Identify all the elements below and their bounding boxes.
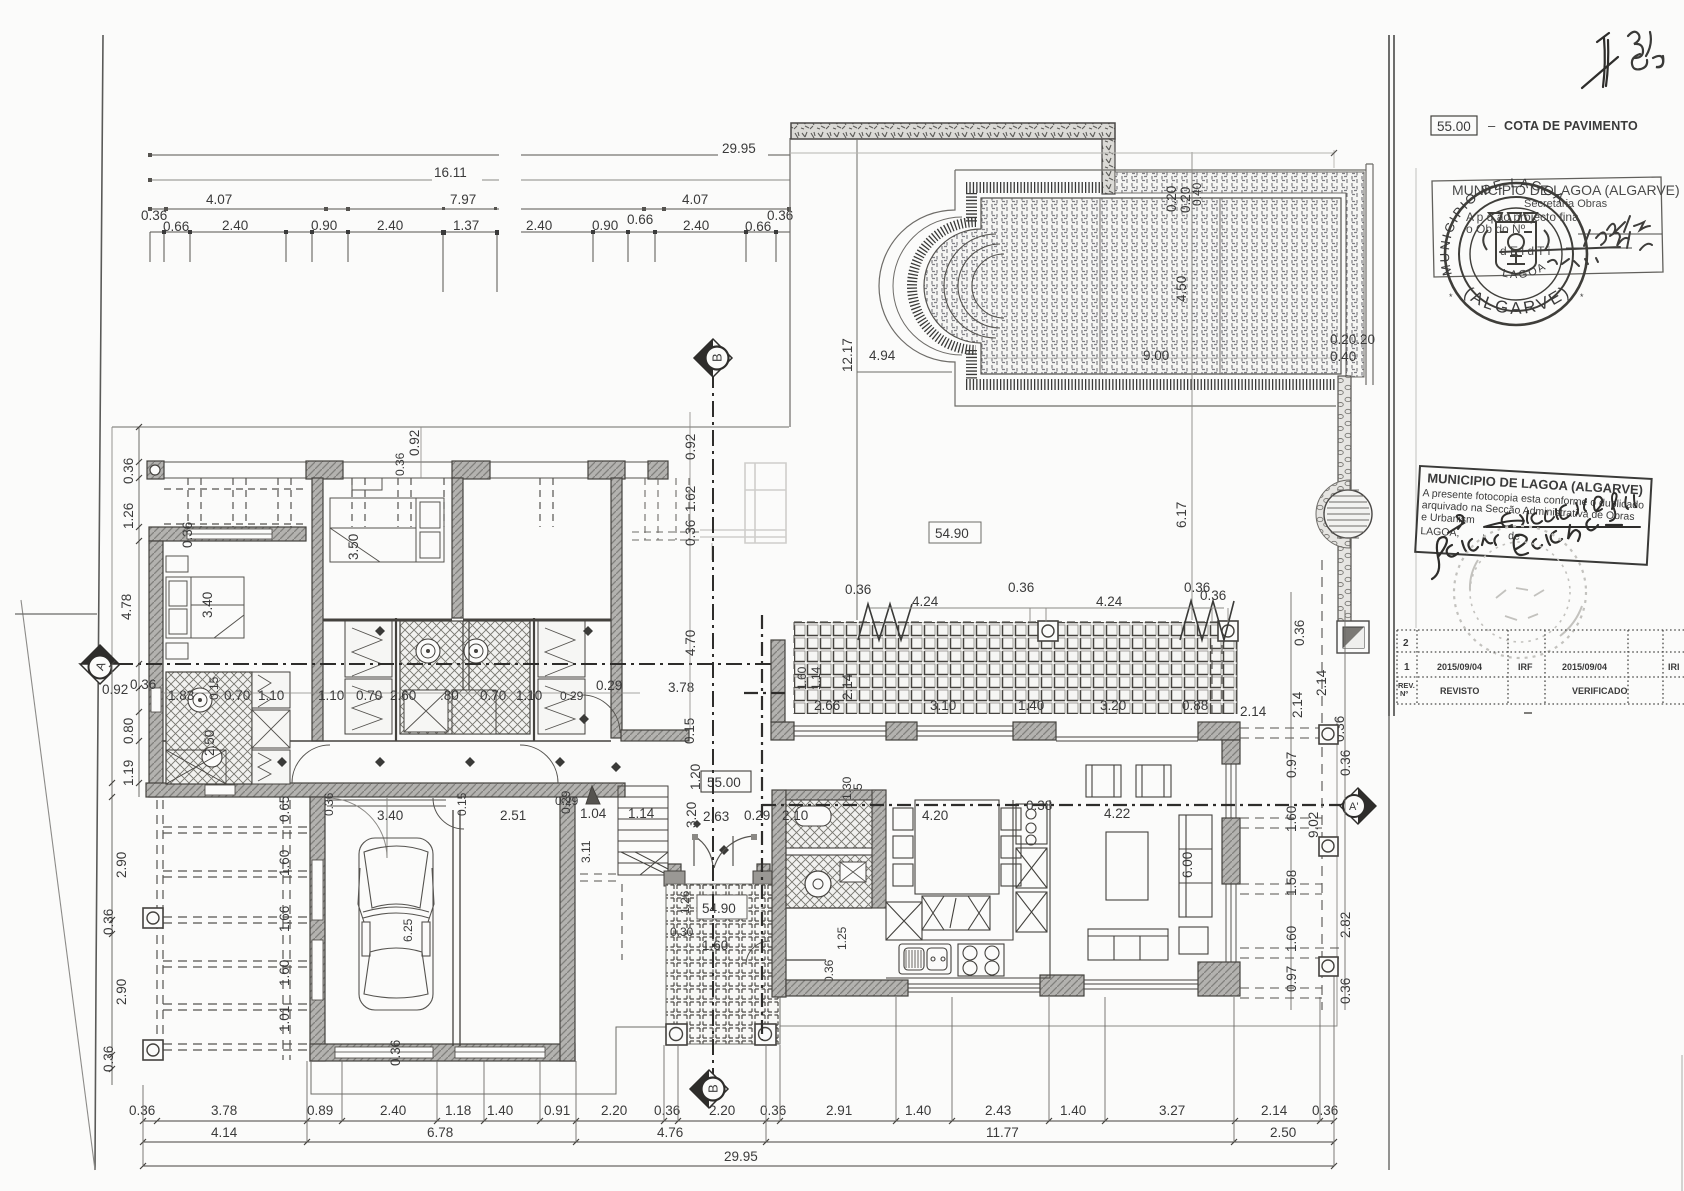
svg-text:IRF: IRF [1518, 662, 1533, 672]
svg-text:0.91: 0.91 [544, 1103, 570, 1118]
pool edge tick neck + arc [966, 193, 977, 222]
svg-text:0.29: 0.29 [744, 808, 770, 823]
svg-text:0.80: 0.80 [121, 718, 136, 744]
kitchen counters [886, 800, 1050, 978]
svg-text:0.15: 0.15 [455, 792, 469, 816]
pool edge tick band top [966, 182, 1103, 193]
white gap in top dim lines [499, 144, 521, 236]
south boundary line right wing [666, 718, 1337, 1026]
round planter [1316, 480, 1350, 548]
lane lines [1100, 198, 1220, 374]
wing south wall [146, 783, 625, 797]
svg-text:0.20: 0.20 [1164, 186, 1179, 212]
svg-text:2.91: 2.91 [826, 1103, 852, 1118]
A axis left [88, 663, 775, 665]
A' axis [761, 615, 763, 1040]
chain ticks and drop lines [150, 232, 790, 292]
right corner marks [1319, 725, 1338, 744]
svg-text:0.20.20: 0.20.20 [1330, 332, 1375, 347]
svg-text:9.02: 9.02 [1306, 812, 1321, 838]
bottom chain row 2 [143, 1141, 1334, 1143]
svg-text:1.83: 1.83 [168, 688, 194, 703]
svg-text:3.40: 3.40 [377, 808, 403, 823]
svg-text:6.25: 6.25 [401, 918, 415, 942]
svg-text:6.00: 6.00 [1180, 852, 1195, 878]
handwritten date + signature [1448, 493, 1640, 533]
svg-text:2.20: 2.20 [601, 1103, 627, 1118]
floor diamonds [277, 626, 729, 855]
svg-text:0.36: 0.36 [760, 1103, 786, 1118]
svg-text:6.17: 6.17 [1174, 502, 1189, 528]
svg-text:0.92: 0.92 [407, 430, 422, 456]
bedroom1 north wall [149, 527, 306, 541]
svg-text:0.36: 0.36 [129, 1103, 155, 1118]
svg-text:29.95: 29.95 [724, 1149, 758, 1164]
svg-text:0.36: 0.36 [1292, 620, 1307, 646]
property line vertical x=790 [789, 138, 791, 427]
bottom chain row 3 [143, 1165, 1334, 1167]
svg-text:0.38: 0.38 [1026, 798, 1052, 813]
svg-text:0.36: 0.36 [130, 677, 156, 692]
garage internal divider [453, 810, 460, 1046]
55.00 cota [1431, 116, 1477, 135]
svg-text:.80: .80 [440, 688, 459, 703]
svg-text:3.40: 3.40 [200, 592, 215, 618]
svg-text:5: 5 [851, 783, 865, 790]
svg-text:0.90: 0.90 [592, 218, 618, 233]
chain dim line 0.36..0.66 [150, 231, 790, 233]
svg-text:1.20: 1.20 [688, 764, 703, 790]
svg-text:0.36: 0.36 [767, 208, 793, 223]
dim line 4.07 / 7.97 / 4.07 [150, 208, 790, 210]
svg-text:2.82: 2.82 [1338, 912, 1353, 938]
square planter [1337, 621, 1369, 653]
path outline below garage [311, 1027, 666, 1094]
svg-text:0.40: 0.40 [1190, 182, 1204, 206]
garage bottom wall [310, 1044, 575, 1061]
divider bed2/bed3 [452, 478, 463, 618]
wall vertical return [1102, 139, 1115, 194]
bottom chain row 1 [143, 1120, 1334, 1122]
svg-text:0.70: 0.70 [356, 688, 382, 703]
svg-text:Nº: Nº [1400, 689, 1408, 698]
svg-text:2.14: 2.14 [840, 673, 855, 700]
dim 12.17 [856, 138, 858, 620]
B axis [712, 372, 714, 1075]
divider bed1/bed2 [312, 478, 323, 741]
svg-text:9.00: 9.00 [1143, 348, 1169, 363]
svg-text:3.50: 3.50 [346, 534, 361, 560]
dining table [893, 800, 1021, 930]
svg-text:11.77: 11.77 [986, 1125, 1019, 1140]
svg-text:0.15: 0.15 [682, 718, 697, 744]
walkway band right of wall + deck strip right [1115, 172, 1364, 377]
svg-text:1.62: 1.62 [683, 486, 698, 512]
svg-text:1.10: 1.10 [318, 688, 344, 703]
svg-text:0.66: 0.66 [627, 212, 653, 227]
pen strokes [1582, 33, 1618, 88]
svg-text:B: B [710, 353, 725, 362]
pergola dashed structure [157, 800, 310, 1060]
svg-text:4.07: 4.07 [682, 192, 708, 207]
B marker top [694, 339, 732, 377]
svg-text:0.36: 0.36 [683, 520, 698, 546]
svg-text:3.20: 3.20 [684, 802, 699, 828]
svg-text:7.97: 7.97 [450, 192, 476, 207]
svg-text:2.50: 2.50 [1270, 1125, 1296, 1140]
svg-text:2.40: 2.40 [683, 218, 709, 233]
svg-text:1.14: 1.14 [809, 666, 823, 690]
svg-text:0.29: 0.29 [559, 790, 573, 814]
handwritten entries [1500, 216, 1652, 266]
svg-text:2.14: 2.14 [1290, 691, 1305, 718]
svg-text:0.70: 0.70 [224, 688, 250, 703]
svg-text:IRI: IRI [1668, 662, 1680, 672]
svg-text:0.36: 0.36 [845, 582, 871, 597]
svg-text:2.20: 2.20 [709, 1103, 735, 1118]
svg-text:4.22: 4.22 [1104, 806, 1130, 821]
svg-text:4.50: 4.50 [1174, 276, 1189, 302]
svg-text:2.40: 2.40 [377, 218, 403, 233]
svg-text:0.36: 0.36 [101, 1046, 116, 1072]
svg-text:*: * [1580, 292, 1584, 302]
paper crease diagonal bottom-left [21, 600, 95, 1170]
svg-text:2.50: 2.50 [202, 730, 217, 756]
svg-text:1.60: 1.60 [1284, 806, 1299, 832]
svg-text:0.70: 0.70 [480, 688, 506, 703]
svg-text:0.97: 0.97 [1284, 752, 1299, 778]
svg-text:COTA DE PAVIMENTO: COTA DE PAVIMENTO [1504, 119, 1638, 133]
svg-text:1.60: 1.60 [277, 960, 292, 986]
east wall [1222, 740, 1240, 764]
svg-text:2: 2 [1403, 638, 1409, 649]
stamp 2 tilted box [1415, 466, 1651, 565]
svg-text:1.10: 1.10 [516, 688, 542, 703]
svg-text:0.36: 0.36 [1338, 978, 1353, 1004]
top boundary wall (rubble) [791, 123, 1115, 139]
dim line 16.11 [150, 179, 790, 181]
svg-text:2.10: 2.10 [782, 808, 808, 823]
stamp 1 box [1432, 177, 1680, 277]
left wing dim row [163, 692, 640, 694]
svg-text:1.40: 1.40 [1060, 1103, 1086, 1118]
svg-text:0.90: 0.90 [311, 218, 337, 233]
svg-text:0.88: 0.88 [1182, 698, 1208, 713]
svg-text:4.70: 4.70 [683, 630, 698, 656]
garage door opening [327, 800, 446, 806]
svg-text:2.66: 2.66 [814, 698, 840, 713]
svg-text:2.60: 2.60 [390, 688, 416, 703]
dim line 29.95 [150, 154, 790, 156]
living furniture [1086, 765, 1212, 960]
svg-text:0.36: 0.36 [1200, 588, 1226, 603]
svg-text:1.25: 1.25 [835, 926, 849, 950]
svg-text:0.29: 0.29 [560, 689, 584, 703]
svg-text:4.76: 4.76 [657, 1125, 683, 1140]
svg-text:1.60: 1.60 [277, 850, 292, 876]
pool edge tick band bottom [966, 379, 1336, 390]
door arc garage2 [433, 798, 464, 829]
hall: 55.00 label [701, 771, 751, 792]
svg-text:0.36: 0.36 [1338, 750, 1353, 776]
zigzag break marks [858, 604, 912, 640]
svg-text:1.66: 1.66 [277, 906, 292, 932]
revision table [1397, 630, 1684, 704]
svg-text:0.36: 0.36 [654, 1103, 680, 1118]
west wall upper [771, 640, 785, 722]
wardrobe columns flanking center bath [345, 621, 585, 734]
porch band edge lines [147, 462, 668, 478]
roman steps arcs [944, 234, 996, 338]
garage right wall [560, 797, 575, 1061]
bathroom 1 tiles [166, 672, 252, 784]
entry patio side walls [668, 864, 681, 948]
svg-text:2.14: 2.14 [1261, 1103, 1288, 1118]
wall from bed3 to hall [621, 730, 689, 741]
svg-text:1.10: 1.10 [258, 688, 284, 703]
faint template border [1415, 168, 1417, 628]
right page edge [1681, 1055, 1683, 1191]
svg-text:*: * [1449, 292, 1453, 302]
svg-text:6.78: 6.78 [427, 1125, 453, 1140]
faint round stamp [1454, 526, 1586, 658]
page left border line [95, 35, 103, 1170]
svg-text:54.90: 54.90 [702, 901, 736, 916]
svg-text:0.36: 0.36 [388, 1040, 403, 1066]
bath zone top wall [323, 619, 611, 622]
svg-text:2.14: 2.14 [1314, 669, 1329, 696]
extension verticals [143, 962, 1334, 1166]
svg-text:A': A' [1349, 801, 1358, 813]
svg-text:1.40: 1.40 [905, 1103, 931, 1118]
dashed porch ext right of bed3 [632, 478, 700, 540]
svg-text:1.26: 1.26 [678, 890, 692, 914]
bed3 right wall [611, 478, 622, 738]
svg-text:2.51: 2.51 [500, 808, 526, 823]
svg-text:2.43: 2.43 [985, 1103, 1011, 1118]
svg-text:0.36: 0.36 [121, 458, 136, 484]
svg-text:2.40: 2.40 [526, 218, 552, 233]
property boundary top [112, 426, 789, 428]
svg-text:4.07: 4.07 [206, 192, 232, 207]
svg-text:12.17: 12.17 [840, 338, 855, 372]
svg-text:0.40: 0.40 [1330, 349, 1356, 364]
title panel separator double line [1389, 35, 1394, 716]
svg-text:1.37: 1.37 [453, 218, 479, 233]
stairs [586, 786, 668, 875]
south wall [786, 980, 908, 996]
porch blocks [147, 461, 164, 479]
mini chain x=421 [420, 427, 422, 478]
svg-text:4.94: 4.94 [869, 348, 896, 363]
svg-text:4.14: 4.14 [211, 1125, 238, 1140]
svg-text:1.60: 1.60 [795, 666, 809, 690]
svg-text:1.14: 1.14 [628, 806, 655, 821]
svg-text:3.10: 3.10 [930, 698, 956, 713]
right wing right-side chains [1290, 592, 1292, 1010]
svg-text:4.24: 4.24 [1096, 594, 1123, 609]
svg-text:2015/09/04: 2015/09/04 [1437, 662, 1482, 672]
svg-text:3.11: 3.11 [579, 840, 593, 863]
bathroom 1 closet column [166, 750, 226, 784]
svg-text:2.40: 2.40 [222, 218, 248, 233]
svg-text:0.30: 0.30 [670, 925, 694, 939]
left exterior wall [149, 541, 163, 797]
svg-text:B: B [706, 1084, 721, 1093]
entry double door [694, 836, 755, 868]
svg-text:3.20: 3.20 [1100, 698, 1126, 713]
svg-text:2015/09/04: 2015/09/04 [1562, 662, 1607, 672]
svg-text:0.65: 0.65 [277, 796, 292, 822]
svg-text:2.90: 2.90 [114, 852, 129, 878]
svg-text:2.90: 2.90 [114, 979, 129, 1005]
patio corner marks [666, 1024, 687, 1045]
svg-text:4.24: 4.24 [912, 594, 939, 609]
svg-text:1.04: 1.04 [580, 806, 607, 821]
light extension of top dim line [790, 150, 1334, 168]
porch dashed posts [164, 478, 553, 527]
svg-text:1.40: 1.40 [1018, 698, 1044, 713]
ghost faded structures right of wing [700, 463, 786, 560]
dashed lines left of stairs [580, 874, 622, 960]
pool water [924, 198, 1341, 374]
pool deck outline [879, 170, 1366, 406]
svg-text:2.14: 2.14 [1240, 704, 1267, 719]
svg-text:16.11: 16.11 [434, 165, 467, 180]
svg-text:55.00: 55.00 [1437, 119, 1471, 134]
svg-text:0.36: 0.36 [1008, 580, 1034, 595]
svg-text:0.66: 0.66 [163, 219, 189, 234]
svg-text:0.36: 0.36 [322, 792, 336, 816]
svg-text:29.95: 29.95 [722, 141, 756, 156]
svg-text:4.78: 4.78 [119, 594, 134, 620]
svg-text:1.18: 1.18 [445, 1103, 471, 1118]
bed 2 [330, 478, 444, 562]
svg-text:0.15: 0.15 [207, 676, 221, 700]
svg-text:1.19: 1.19 [121, 760, 136, 786]
corridor north wall [163, 740, 611, 742]
svg-text:0.92: 0.92 [683, 434, 698, 460]
svg-text:1.60: 1.60 [1284, 926, 1299, 952]
svg-text:4.20: 4.20 [922, 808, 948, 823]
car [358, 838, 434, 1010]
dim 4.94 [857, 371, 952, 373]
svg-text:0.89: 0.89 [307, 1103, 333, 1118]
B marker bottom [690, 1070, 728, 1108]
svg-text:0.36: 0.36 [101, 909, 116, 935]
svg-text:1.01: 1.01 [277, 1006, 292, 1032]
room below pantry [786, 908, 872, 960]
stone path right [1338, 376, 1351, 623]
garage left wall [310, 797, 325, 1061]
svg-text:2.40: 2.40 [380, 1103, 406, 1118]
door arcs corridor [292, 695, 620, 783]
svg-text:–: – [1488, 118, 1496, 133]
north wall of wing [771, 722, 794, 740]
pergola corner posts [143, 908, 163, 928]
circular stamp [1445, 183, 1587, 325]
separating walls of bath zone [396, 618, 534, 741]
left chains [138, 427, 140, 797]
bed 1 [166, 556, 244, 659]
svg-text:2.63: 2.63 [703, 809, 729, 824]
handwritten 31 CD [1628, 32, 1663, 70]
svg-text:0.36: 0.36 [180, 522, 195, 548]
54.90 label [929, 522, 981, 543]
svg-text:1.58: 1.58 [1284, 870, 1299, 896]
horizontal tick line left mid [15, 613, 97, 615]
terrace tiles [794, 622, 1237, 714]
terrace corner posts [1038, 621, 1058, 641]
svg-text:1.26: 1.26 [121, 503, 136, 529]
svg-text:REVISTO: REVISTO [1440, 686, 1479, 696]
svg-text:0.36: 0.36 [393, 452, 407, 476]
svg-text:1: 1 [1404, 662, 1410, 673]
svg-text:1.60: 1.60 [702, 938, 728, 953]
svg-text:VERIFICADO: VERIFICADO [1572, 686, 1628, 696]
entry patio tiles [666, 884, 780, 1044]
svg-text:3.78: 3.78 [211, 1103, 237, 1118]
property boundary left [111, 427, 113, 1085]
svg-text:3.27: 3.27 [1159, 1103, 1185, 1118]
svg-text:1.40: 1.40 [487, 1103, 513, 1118]
center bathroom tiles [400, 621, 530, 734]
laundry + pantry [772, 790, 786, 997]
dashed lines to right dims [1212, 645, 1344, 958]
svg-text:0.92: 0.92 [102, 682, 128, 697]
svg-text:54.90: 54.90 [935, 526, 969, 541]
vertical ext line x=690 [689, 412, 691, 730]
svg-text:0.29: 0.29 [596, 678, 622, 693]
